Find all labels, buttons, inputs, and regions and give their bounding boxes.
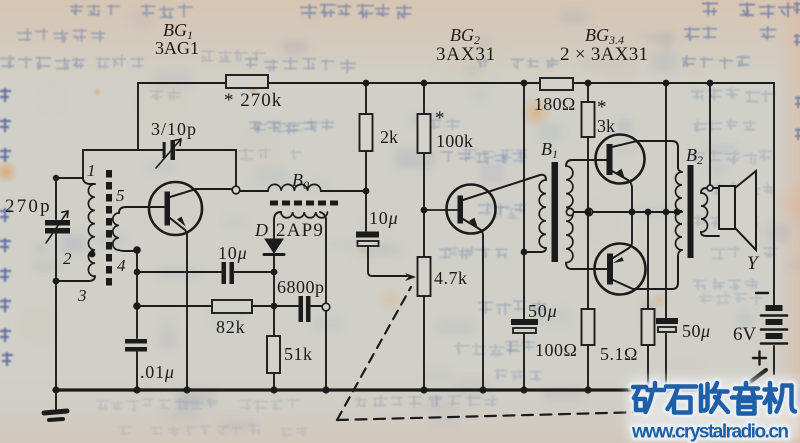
- label D 2AP9: [254, 220, 324, 241]
- svg-text:*: *: [597, 97, 607, 118]
- node tap 4 to bias line: [133, 246, 141, 254]
- node bus x666: [662, 386, 669, 393]
- svg-text:3AX31: 3AX31: [436, 44, 496, 65]
- label *270k: [224, 90, 282, 111]
- label 180 ohm: [534, 94, 576, 114]
- label 51k: [284, 344, 313, 364]
- node x274 y306: [271, 303, 278, 310]
- node bus x56: [52, 386, 59, 393]
- label 3AG1: [155, 38, 199, 58]
- svg-text:D: D: [254, 220, 268, 240]
- node bus x331: [322, 386, 329, 393]
- label Y: [747, 253, 760, 274]
- node tap 2: [89, 251, 96, 258]
- label .01u: [140, 362, 175, 382]
- node B1 primary bottom: [521, 249, 528, 256]
- resistor 3k: [582, 83, 595, 208]
- transformer B1 primary: [524, 180, 546, 252]
- node bus x137: [133, 386, 140, 393]
- wire detector bias y272: [137, 271, 274, 273]
- resistor 51k: [267, 306, 280, 390]
- ground: [44, 390, 67, 420]
- svg-text:50μ: 50μ: [528, 301, 557, 321]
- label BG3.4: [585, 25, 624, 47]
- label B1: [541, 139, 558, 161]
- transformer B0 primary: [240, 184, 366, 191]
- wire top supply rail: [138, 82, 774, 84]
- node bias x666: [663, 209, 670, 216]
- svg-text:5.1Ω: 5.1Ω: [600, 344, 638, 364]
- capacitor C 50u bypass: [656, 318, 678, 332]
- pin label 3: [77, 286, 87, 305]
- pin label 2: [63, 249, 72, 268]
- label 10u coupling: [369, 208, 398, 228]
- label 6V: [733, 324, 757, 345]
- label *3k: [597, 97, 615, 136]
- svg-text:1: 1: [87, 161, 96, 180]
- label 6800p: [277, 277, 325, 297]
- node emitter junction: [629, 209, 636, 216]
- capacitor C .01u: [125, 339, 147, 352]
- capacitor C 270p variable: [45, 178, 70, 390]
- node bus x524: [520, 386, 527, 393]
- node B1 center tap (open): [566, 208, 573, 215]
- wire speaker top feed: [706, 187, 719, 189]
- node bus x424: [420, 386, 427, 393]
- antenna coil secondary winding taps 5-4: [113, 207, 164, 251]
- label 5.1 ohm: [600, 344, 638, 364]
- node rail x588: [585, 80, 592, 87]
- svg-text:3/10p: 3/10p: [151, 119, 197, 139]
- wire center tap link: [574, 211, 585, 213]
- label battery plus: [753, 352, 766, 365]
- capacitor C 10u coupling: [356, 191, 379, 246]
- svg-text:www.crystalradio.cn: www.crystalradio.cn: [631, 422, 789, 443]
- svg-text:*: *: [435, 108, 445, 129]
- pin label 4: [117, 256, 126, 275]
- svg-text:* 270k: * 270k: [224, 90, 282, 111]
- node 6800p right (open): [311, 303, 330, 311]
- transformer B2 secondary: [701, 188, 708, 236]
- svg-text:B2: B2: [686, 145, 703, 167]
- pin label 1: [87, 161, 96, 180]
- node bias x648: [645, 209, 652, 216]
- svg-text:4: 4: [117, 256, 126, 275]
- label battery minus: [756, 292, 768, 294]
- watermark 矿石收音机: [627, 377, 800, 441]
- transformer B1 core: [552, 162, 559, 262]
- diode D 2AP9: [264, 220, 284, 306]
- wire rail left drop to tuning line: [137, 83, 139, 150]
- svg-text:2k: 2k: [380, 127, 398, 147]
- label BG2: [450, 25, 480, 47]
- resistor 2k: [360, 83, 373, 191]
- mechanical link dashed diagonal: [337, 287, 411, 420]
- transistor BG3: [596, 135, 679, 213]
- svg-text:2: 2: [63, 249, 72, 268]
- label 270p: [5, 196, 52, 217]
- svg-text:6V: 6V: [733, 324, 757, 345]
- node rail x366: [363, 80, 370, 87]
- node rail x424: [421, 80, 428, 87]
- svg-text:5: 5: [116, 186, 125, 205]
- node BG2 base: [421, 207, 428, 214]
- svg-text:100Ω: 100Ω: [535, 340, 577, 360]
- transformer B0 secondary: [274, 212, 327, 302]
- resistor 100k: [418, 83, 431, 210]
- wire 270p branch top: [56, 150, 83, 178]
- label 4.7k: [434, 268, 468, 288]
- node speaker top (open): [707, 185, 713, 191]
- resistor 270k: [226, 75, 268, 88]
- svg-text:51k: 51k: [284, 344, 313, 364]
- svg-text:10μ: 10μ: [369, 208, 398, 228]
- transformer B0 core: [270, 201, 339, 206]
- node bus x483: [479, 386, 486, 393]
- node B2 center tap: [674, 209, 682, 216]
- wire tuning line y150: [83, 149, 236, 151]
- label B2: [686, 145, 703, 167]
- transformer B2 core: [688, 165, 694, 258]
- label 2x3AX31: [560, 44, 648, 65]
- transistor BG4: [595, 212, 679, 295]
- node 270p top: [53, 175, 59, 181]
- svg-text:2 × 3AX31: 2 × 3AX31: [560, 44, 648, 65]
- node x274 y272: [271, 269, 278, 276]
- wire base feed y306: [137, 305, 298, 307]
- label 50u bypass: [682, 321, 711, 341]
- ground bus: [54, 388, 745, 391]
- label *100k: [435, 108, 473, 151]
- speaker Y: [719, 171, 756, 250]
- resistor 82k: [212, 300, 252, 313]
- svg-text:180Ω: 180Ω: [534, 94, 576, 114]
- label 3AX31: [436, 44, 496, 65]
- wire bypass column x666: [665, 83, 667, 390]
- node bus x648: [644, 386, 651, 393]
- node rail x666: [663, 80, 670, 87]
- svg-text:2AP9: 2AP9: [276, 220, 324, 241]
- wire rail right drop to battery: [773, 83, 775, 305]
- node x137 y306: [133, 302, 141, 310]
- transformer B1 secondary: [566, 160, 608, 269]
- wire decoupling column x524: [523, 83, 525, 390]
- svg-text:.01μ: .01μ: [140, 362, 175, 382]
- mechanical link dashed horizontal: [337, 412, 645, 420]
- svg-text:3: 3: [77, 286, 87, 305]
- resistor 180 ohm: [540, 78, 573, 90]
- resistor 100 ohm: [582, 212, 595, 390]
- svg-text:4.7k: 4.7k: [434, 268, 468, 288]
- capacitor C 10u detector: [222, 262, 235, 284]
- transformer antenna coil core: [106, 170, 112, 290]
- label 10u detector: [218, 243, 247, 263]
- transistor BG2: [424, 175, 546, 390]
- node collector junction (open): [232, 186, 240, 194]
- label 50u decoupling: [528, 301, 557, 321]
- node tap 3 junction: [53, 278, 60, 285]
- pin label 5: [116, 186, 125, 205]
- capacitor C 50u decoupling: [511, 319, 538, 333]
- svg-text:6800p: 6800p: [277, 277, 325, 297]
- wire speaker bottom feed: [706, 235, 719, 237]
- node bias junction (open): [585, 208, 592, 215]
- capacitor C 6800p: [299, 296, 311, 322]
- node bus x274: [270, 386, 277, 393]
- node x137 y272: [134, 269, 141, 276]
- wire wiper arm to 4.7k: [368, 246, 416, 281]
- label 2k: [380, 127, 398, 147]
- node bias x588: [585, 209, 592, 216]
- svg-text:50μ: 50μ: [682, 321, 711, 341]
- wire rail to speaker x710: [709, 83, 711, 185]
- resistor 5.1 ohm: [642, 212, 655, 390]
- svg-text:3AG1: 3AG1: [155, 38, 199, 58]
- svg-text:Y: Y: [747, 253, 760, 274]
- svg-text:B0: B0: [292, 170, 309, 192]
- node rail x524: [521, 80, 528, 87]
- node bus x588: [584, 386, 591, 393]
- label 3/10p: [151, 119, 197, 139]
- wire emitter bias line y212: [593, 211, 677, 213]
- svg-text:82k: 82k: [216, 317, 245, 337]
- battery 6V: [761, 305, 787, 374]
- antenna coil primary winding taps 1-2-3: [56, 178, 95, 281]
- svg-text:100k: 100k: [436, 131, 473, 151]
- label 82k: [216, 317, 245, 337]
- label B0: [292, 170, 309, 192]
- svg-text:3k: 3k: [597, 116, 615, 136]
- wire collector drop x236: [235, 150, 237, 186]
- resistor 4.7k volume: [418, 210, 431, 390]
- svg-text:270p: 270p: [5, 196, 52, 217]
- svg-text:10μ: 10μ: [218, 243, 247, 263]
- transformer B2 primary: [676, 168, 683, 256]
- svg-text:B1: B1: [541, 139, 558, 161]
- label BG1: [163, 20, 193, 42]
- node B0 right x366: [363, 188, 370, 195]
- wire x326 to ground bus: [325, 311, 327, 390]
- wire bias column x137: [136, 250, 138, 390]
- transistor BG1: [149, 182, 232, 390]
- label 100 ohm: [535, 340, 577, 360]
- node rail x710: [707, 80, 714, 87]
- node bus x187: [183, 386, 190, 393]
- capacitor C 3/10p trimmer: [156, 139, 181, 168]
- switch K: [741, 370, 766, 389]
